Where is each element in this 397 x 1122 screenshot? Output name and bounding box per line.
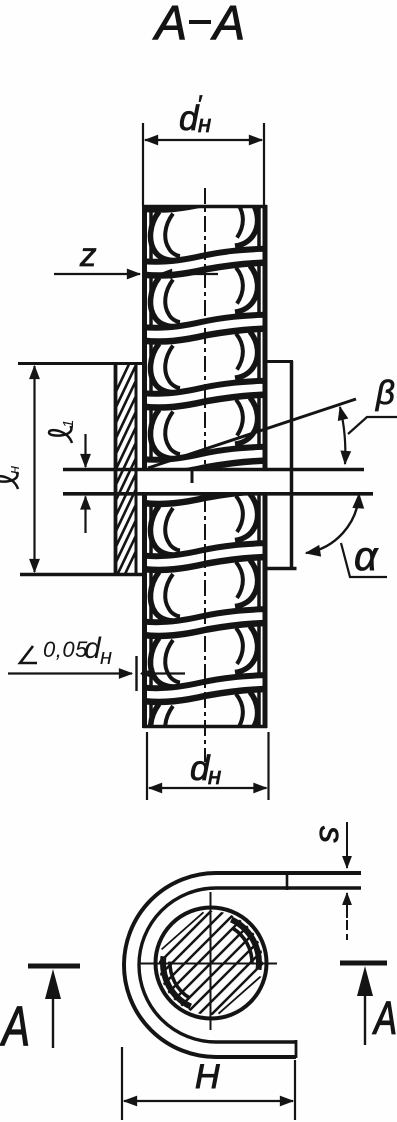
beta arc double arrow [340,407,345,464]
dimension d'n top [143,123,264,206]
svg-text:A: A [210,0,245,50]
dimension l_1 [84,434,86,533]
label d'n [179,91,211,138]
svg-text:A: A [372,992,397,1044]
strap top tab [216,871,361,890]
perpendicularity note text [43,632,112,669]
left plate hatched [111,339,141,604]
beta line diagonal [148,399,356,468]
svg-text:s: s [312,826,350,843]
chord bottom-right [219,977,261,1014]
rope outline [143,205,267,728]
leader arrows bottom [8,656,185,691]
slot white band [141,471,373,493]
alpha arc [306,494,359,553]
dimension l_n left [18,364,143,575]
label l_n rotated [0,466,23,489]
center lines of circle [140,963,277,965]
svg-text:н: н [198,111,211,138]
hatch [92,880,397,1030]
svg-text:β: β [375,374,395,411]
rope section circle [156,908,267,1019]
center vertical axis of rope [204,188,206,762]
svg-text:н: н [6,466,23,474]
title dash [189,20,211,24]
dimension H [122,1047,295,1120]
section arrow left [0,966,80,1057]
right plate [266,361,297,570]
rope left edge [142,205,147,469]
svg-text:z: z [79,236,97,273]
inner strand chords and hatching [92,880,397,1030]
chord top-left [161,912,203,949]
slot bottom line [63,492,373,496]
dimension s [346,822,348,940]
slot dash through center [191,470,194,483]
svg-text:H: H [195,1058,220,1096]
crescent top-right [231,920,259,970]
svg-text:0,05: 0,05 [43,637,88,662]
svg-text:н: н [100,644,112,669]
label d_n [190,749,221,790]
strap bottom tab [216,1040,296,1058]
svg-text:A: A [0,995,30,1057]
rope texture bottom section [143,427,266,768]
perpendicularity note: angle symbol [20,646,37,663]
dimension d_n bottom [147,732,269,800]
label l_1 rotated [49,420,77,443]
slot top line [63,468,364,472]
rope texture top section [143,133,266,474]
title A-A [152,0,245,50]
clamp strap inner arc [139,888,216,1042]
crescent bottom-left [163,956,191,1006]
alpha leader [341,543,387,577]
svg-text:1: 1 [60,420,77,428]
svg-text:н: н [208,763,221,790]
section arrow right [340,963,397,1045]
beta leader [348,417,397,434]
svg-text:A: A [152,0,187,50]
clamp strap outer arc [124,873,216,1057]
svg-text:α: α [354,533,379,579]
